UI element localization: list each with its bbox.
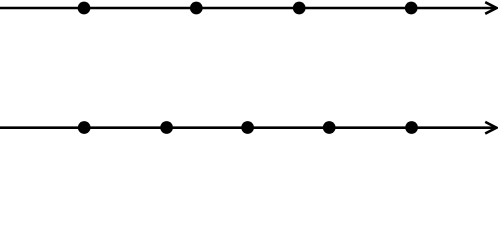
top number line (wire) xyxy=(0,7,495,10)
top point 2 xyxy=(190,2,203,15)
bottom point 4 xyxy=(323,121,336,134)
top line arrowhead xyxy=(485,2,496,14)
bottom point 3 xyxy=(241,121,254,134)
bottom line arrowhead xyxy=(485,122,496,134)
top point 3 xyxy=(293,2,306,15)
bottom point 1 xyxy=(78,121,91,134)
bottom point 2 xyxy=(160,121,173,134)
top point 4 xyxy=(405,2,418,15)
bottom number line (wire) xyxy=(0,126,495,129)
top point 1 xyxy=(78,2,91,15)
bottom point 5 xyxy=(405,121,418,134)
